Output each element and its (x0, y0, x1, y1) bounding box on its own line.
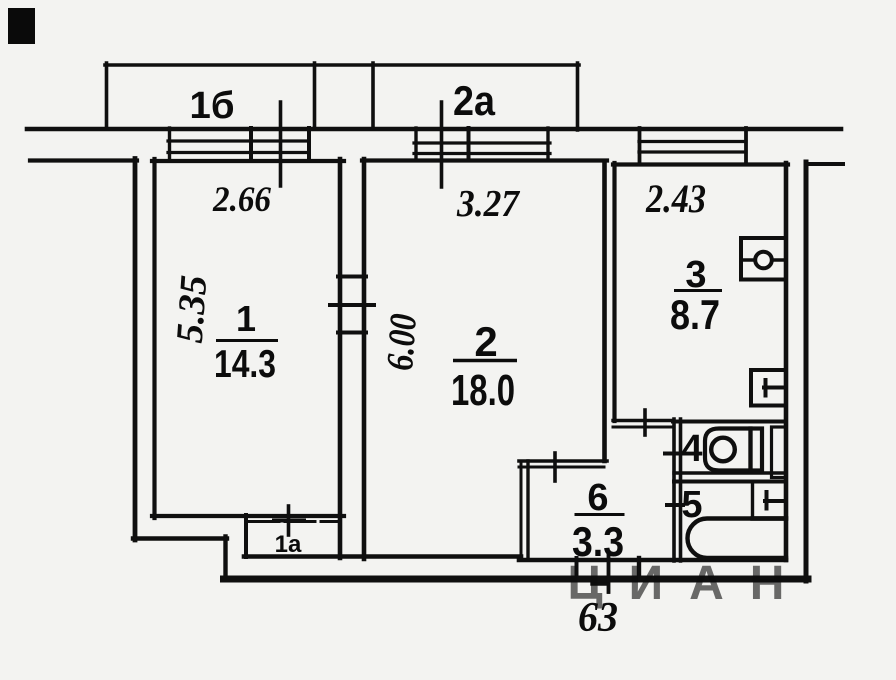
tub top line full (753, 516, 787, 520)
svg-text:8.7: 8.7 (670, 291, 720, 338)
tick 63 dash (592, 582, 608, 585)
dim tick 2.66 (279, 102, 283, 186)
svg-text:18.0: 18.0 (451, 366, 515, 415)
outer wall right (804, 162, 809, 581)
door tick bath (667, 503, 683, 507)
top right wall stub (808, 162, 843, 166)
door tick room 6 (553, 453, 557, 481)
towel rail room3 hbar (764, 386, 786, 390)
main facade wall top line (27, 127, 841, 132)
balcony divider left (313, 63, 317, 128)
entrance box divider 3 (637, 558, 641, 577)
wc top wall (673, 420, 786, 424)
room 3 top wall (613, 162, 788, 166)
room 3 right wall (784, 163, 789, 560)
svg-text:14.3: 14.3 (214, 343, 276, 386)
svg-text:2: 2 (474, 318, 497, 365)
svg-text:5: 5 (681, 484, 702, 526)
washbasin box (741, 238, 786, 280)
wall room1/room2 left line (338, 159, 343, 558)
window W2 divider (467, 128, 471, 159)
window W1 sill line 1 (168, 139, 308, 142)
svg-text:ЦИАН: ЦИАН (568, 557, 811, 610)
window W2 sill line 1 (414, 141, 550, 144)
window W2 right end (546, 128, 549, 159)
bath towel vbar (765, 492, 769, 509)
outer wall left (133, 159, 138, 541)
svg-text:6: 6 (587, 477, 608, 519)
wc/bath left wall line 2 (679, 419, 683, 561)
washbasin line (741, 258, 786, 262)
balcony 1b left wall (105, 63, 109, 128)
tick 1a vertical (287, 506, 291, 535)
bath towel hbar (765, 499, 786, 503)
wc/bath divider line 1 (674, 471, 786, 474)
wall room2/room3 left line (602, 163, 607, 461)
niche bottom rung (338, 331, 366, 335)
toilet circle (711, 438, 735, 462)
room 1 left wall (152, 159, 156, 518)
closet 1a top inner dashed line (249, 520, 339, 523)
window W2 sill line 2 (414, 152, 550, 155)
window W1 left end (168, 128, 171, 161)
svg-text:1а: 1а (275, 531, 302, 558)
room 6 step line 1 (519, 459, 607, 463)
towel rail room3 vbar (764, 380, 768, 396)
svg-text:1: 1 (236, 298, 256, 339)
outer wall left upper line (30, 158, 137, 162)
room 1 underline (216, 339, 278, 342)
door tick wc (665, 452, 683, 456)
hallway top wall line 2 (613, 426, 673, 429)
dim tick 3.27 (440, 102, 444, 187)
svg-text:4: 4 (681, 428, 702, 470)
window W1 right end (307, 128, 311, 161)
balcony 2a right wall (576, 63, 580, 130)
outer wall bottom-left jog vertical (223, 537, 227, 580)
svg-text:2.43: 2.43 (645, 176, 706, 221)
room 6 left wall line 2 (526, 461, 529, 558)
room 2 top wall (362, 158, 607, 162)
toilet bowl (705, 429, 751, 471)
svg-text:3.27: 3.27 (456, 183, 521, 225)
toilet cistern (751, 429, 763, 471)
tick 63 vertical (607, 552, 611, 592)
tick 1a dash (274, 519, 304, 523)
vent shaft box (772, 427, 787, 478)
svg-text:5.35: 5.35 (169, 274, 216, 345)
bath towel divider (751, 483, 754, 518)
towel rail room3 box (751, 370, 786, 406)
washbasin circle (755, 252, 772, 269)
corner artifact square (8, 8, 35, 44)
window W1 divider (249, 128, 253, 161)
window W3 sill line 2 (639, 150, 746, 153)
window W2 left end (414, 128, 417, 159)
svg-text:6.00: 6.00 (379, 312, 425, 372)
wall room1/room2 right line (362, 159, 367, 559)
svg-text:2.66: 2.66 (212, 179, 271, 219)
window W3 sill line 1 (639, 140, 746, 143)
outer wall bottom (224, 576, 809, 583)
balcony 1b top line (shared with 2a) (105, 63, 579, 67)
wc/bath left wall line 1 (672, 419, 676, 561)
hallway top wall line 1 (613, 419, 673, 422)
entrance box divider 2 (607, 552, 611, 592)
bathtub (688, 519, 787, 559)
dim tick 6.00 (330, 303, 374, 307)
outer wall bottom-left jog horizontal (133, 536, 227, 540)
room 6 left wall line 1 (520, 461, 523, 558)
window W3 right end (744, 128, 748, 164)
room 1 bottom wall (152, 514, 344, 518)
niche top rung (338, 275, 366, 279)
room 2 underline (453, 359, 517, 362)
hall bottom wall (519, 558, 786, 563)
wall room2/room3 right line (612, 163, 616, 421)
entrance box divider 1 (575, 558, 579, 577)
room 1 top wall (152, 159, 344, 163)
window W1 sill line 2 (168, 151, 308, 154)
room 3 underline (674, 289, 722, 292)
closet 1a left wall (244, 515, 248, 557)
svg-text:2а: 2а (453, 77, 496, 124)
window W3 left end (638, 128, 642, 164)
wc/bath divider line 2 (674, 480, 786, 484)
svg-text:1б: 1б (190, 85, 235, 127)
door tick hallway (643, 410, 647, 435)
balcony divider right (371, 63, 375, 128)
room 2 bottom wall (244, 554, 521, 559)
room 6 step line 2 (519, 466, 604, 469)
room 6 underline (575, 513, 625, 516)
